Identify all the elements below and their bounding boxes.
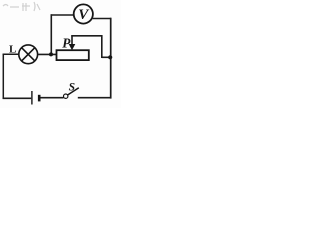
wire: slider lead: [71, 35, 102, 37]
node B junction dot: [108, 55, 112, 59]
wire: lamp left lead: [3, 53, 19, 55]
switch S: [63, 88, 78, 99]
wire: bottom left: [3, 97, 32, 99]
svg-text:P: P: [62, 36, 71, 51]
wire: slider branch jog to right loop: [102, 56, 111, 58]
wire: left vertical (outer loop): [2, 54, 4, 99]
wire: slider branch vertical: [101, 35, 103, 58]
wire: voltmeter right lead: [93, 18, 112, 20]
potentiometer P body: [57, 50, 89, 60]
wire: battery to switch: [41, 97, 64, 99]
scan artifact (faint bleed-through marks, top-left): [3, 2, 40, 11]
wire: switch to right loop: [78, 97, 112, 99]
lamp L: [19, 45, 38, 64]
potentiometer slider arrow: [69, 35, 76, 50]
wire: left branch vertical (voltmeter to node A): [50, 14, 52, 54]
wire: lamp to potentiometer: [38, 53, 57, 55]
wire: right vertical (outer loop): [110, 18, 112, 99]
wire: voltmeter left lead: [51, 14, 75, 16]
node A junction dot: [49, 52, 53, 56]
voltmeter V: [74, 4, 93, 23]
battery: [32, 91, 39, 105]
